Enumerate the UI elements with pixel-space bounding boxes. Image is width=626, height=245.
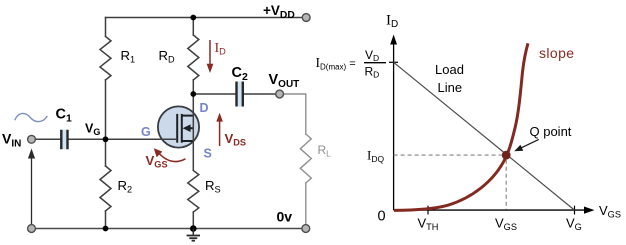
svg-text:VOUT: VOUT [269, 72, 300, 90]
svg-text:VGS: VGS [599, 203, 621, 220]
wire drain to C2 and VOUT [193, 93, 276, 95]
svg-text:VIN: VIN [2, 131, 21, 150]
svg-text:VG: VG [566, 216, 582, 233]
capacitor C1 [61, 130, 67, 150]
transfer curve [394, 43, 528, 210]
junction dot bottom left [103, 226, 109, 232]
svg-text:IDQ: IDQ [367, 148, 384, 165]
dashed IDQ horizontal [394, 154, 502, 156]
svg-text:Q point: Q point [530, 124, 572, 139]
svg-text:0: 0 [378, 209, 386, 225]
dashed VGS vertical [505, 160, 507, 210]
svg-text:RD: RD [159, 48, 176, 65]
svg-text:ID: ID [386, 13, 398, 31]
svg-text:0v: 0v [277, 209, 293, 225]
wire bottom rail [35, 228, 302, 230]
svg-text:ID: ID [215, 41, 227, 57]
MOSFET Q1 body [158, 106, 199, 147]
load line [394, 62, 575, 210]
wire left branch upper (R1 leads) [105, 18, 107, 140]
arrow VGS curved [154, 148, 186, 161]
arrow VDS [216, 113, 223, 146]
resistor R1 [100, 37, 111, 80]
Q point dot [502, 151, 511, 160]
terminal VIN [28, 135, 36, 143]
input source arrow [28, 149, 35, 229]
fraction bar [364, 62, 386, 64]
resistor RL [300, 134, 311, 183]
svg-text:RS: RS [205, 178, 221, 195]
tick VTH [427, 206, 429, 215]
svg-text:R1: R1 [121, 48, 136, 65]
svg-text:G: G [141, 125, 151, 139]
MOSFET Q1 internal symbol [177, 114, 193, 143]
wire RL lower lead [305, 183, 307, 225]
terminal bottom right [302, 225, 310, 233]
svg-text:R2: R2 [118, 178, 133, 195]
wire VOUT to RL branch [283, 94, 306, 134]
arrow ID current [207, 40, 214, 73]
sine wave input symbol [15, 113, 48, 121]
wire top rail [106, 17, 303, 19]
MOSFET arrow [183, 124, 191, 132]
junction dot top rail [190, 15, 196, 21]
tick VG [574, 206, 576, 215]
svg-text:VTH: VTH [418, 216, 439, 233]
svg-text:ID(max) =: ID(max) = [316, 55, 356, 72]
svg-text:VGS: VGS [495, 216, 517, 233]
svg-text:Line: Line [438, 80, 463, 95]
terminal VOUT [276, 90, 284, 98]
x axis [394, 207, 595, 214]
wire gate [35, 138, 177, 140]
junction dot gate node VG [103, 136, 109, 142]
svg-text:VG: VG [85, 122, 100, 138]
svg-text:RD: RD [365, 65, 380, 80]
wire drain branch (RD leads) [192, 18, 194, 95]
svg-text:RL: RL [318, 143, 332, 159]
svg-text:C1: C1 [56, 107, 72, 125]
junction dot bottom source [190, 225, 197, 232]
wire drain-source vertical through MOSFET [192, 94, 194, 171]
wire gate inside MOSFET [157, 138, 177, 140]
svg-text:VDS: VDS [225, 131, 247, 148]
terminal bottom left [28, 225, 36, 233]
wire source branch (RS leads) [192, 212, 194, 229]
ground [187, 229, 200, 241]
wire left branch lower (R2 leads) [105, 139, 107, 228]
Q point arrow [514, 139, 539, 151]
tick IDmax [389, 61, 398, 63]
resistor R2 [100, 166, 111, 211]
capacitor C2 [236, 82, 242, 107]
terminal +VDD [302, 14, 310, 22]
svg-text:VD: VD [365, 48, 379, 63]
svg-text:S: S [204, 147, 212, 161]
svg-text:C2: C2 [232, 65, 248, 83]
svg-text:Load: Load [435, 62, 464, 77]
y axis [390, 35, 397, 211]
resistor RD [188, 35, 199, 80]
svg-text:D: D [200, 101, 209, 115]
svg-text:slope: slope [539, 45, 574, 61]
junction dot drain node [190, 91, 196, 97]
resistor RS [188, 171, 199, 213]
